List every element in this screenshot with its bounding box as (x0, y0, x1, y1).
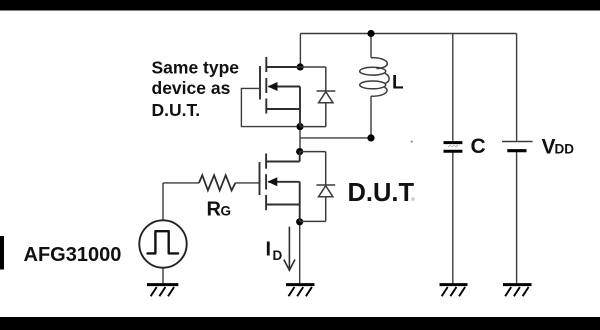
diode D2 (body diode of D.U.T.) (300, 152, 336, 222)
wire rail to VDD battery (516, 34, 518, 141)
ground DUT (286, 285, 315, 297)
left black notch (0, 236, 4, 270)
transistor M1 (same type device) (260, 57, 300, 127)
wire rail to inductor top (370, 34, 372, 58)
svg-text:C: C (471, 135, 486, 158)
wire M1 source node down to M2 drain node (299, 127, 301, 152)
pulse source AFG31000 (139, 220, 186, 267)
ground AFG (147, 285, 178, 297)
svg-text:AFG31000: AFG31000 (24, 244, 122, 266)
svg-text:DD: DD (555, 142, 575, 157)
svg-text:L: L (392, 73, 404, 94)
wire AFG to resistor and gate (163, 183, 260, 220)
wire M1 gate tied to source (241, 88, 297, 126)
faint period after D.U.T (412, 198, 415, 201)
node top-rail / inductor junction (367, 30, 374, 37)
svg-text:Same type: Same type (152, 58, 240, 78)
transistor M2 (D.U.T.) (260, 152, 300, 222)
wire capacitor to ground (452, 152, 454, 284)
ground VDD (503, 285, 532, 297)
wire rail to capacitor (452, 34, 454, 141)
svg-text:V: V (542, 136, 556, 159)
node M2 source (296, 218, 303, 225)
node M2 drain (296, 148, 303, 155)
M2 body arrow (267, 177, 277, 186)
resistor RG (199, 175, 235, 190)
wire inductor bottom to node (370, 96, 372, 138)
current arrow ID (284, 227, 295, 271)
pulse waveform glyph (148, 231, 179, 253)
svg-text:device as: device as (152, 78, 231, 98)
capacitor C (444, 143, 463, 152)
wire top rail (300, 33, 516, 35)
wire battery to ground (516, 152, 518, 284)
M1 body arrow (268, 82, 278, 91)
top letterbox bar (0, 0, 600, 11)
battery VDD (502, 141, 533, 143)
node M1 drain (297, 63, 304, 70)
capacitor hatch mark (448, 145, 458, 147)
svg-text:D.U.T: D.U.T (348, 179, 415, 207)
wire rail to M1 drain (299, 34, 301, 68)
svg-text:R: R (207, 199, 222, 221)
stray speck (411, 141, 413, 143)
svg-text:G: G (221, 204, 232, 219)
svg-text:D.U.T.: D.U.T. (152, 100, 201, 120)
wire switch node to inductor bottom (300, 137, 371, 139)
svg-text:D: D (273, 248, 283, 263)
node M1 source / gate tie (296, 123, 303, 130)
svg-text:I: I (266, 239, 272, 261)
diode D1 (body diode of M1) (300, 67, 335, 127)
inductor L (360, 58, 389, 97)
wire M2 source node to ground (299, 222, 301, 284)
wire AFG bottom to ground (162, 268, 164, 284)
ground C (440, 285, 468, 297)
bottom letterbox bar (0, 317, 600, 330)
node inductor bottom (367, 134, 374, 141)
